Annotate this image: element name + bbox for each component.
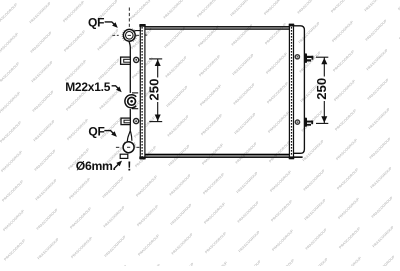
top port outer circle [123, 29, 135, 41]
top port centre dash [128, 34, 131, 37]
label 6mm leader [114, 164, 118, 168]
label QF top leader [105, 22, 116, 25]
top port horizontal centreline dashes [112, 34, 118, 36]
tab 2 outer [121, 118, 130, 125]
left side-plate serration (dashed) [141, 27, 143, 157]
right dimension arrow up [321, 58, 327, 65]
right dimension line lower [323, 101, 325, 123]
right dimension extension tick top [316, 56, 328, 58]
bottom port neck right [130, 131, 132, 141]
left bar top cap [139, 24, 145, 27]
middle port C ring [125, 95, 136, 108]
core top line 1 [145, 26, 290, 27]
left dimension arrow down [155, 115, 161, 122]
core bottom line 2 [141, 156, 303, 158]
right side-plate serration (dashed) [291, 27, 293, 156]
pin 2 bottom arm [307, 124, 311, 126]
left bar bottom cap [139, 157, 145, 160]
svg-text:250: 250 [147, 79, 162, 101]
left fastener 2 [134, 119, 139, 124]
top port inner circle [126, 32, 134, 40]
left tank edge lower [129, 109, 131, 133]
pin 2 top arm [307, 121, 313, 123]
right side-plate bar [289, 24, 293, 159]
right tank outline [294, 26, 305, 154]
label M22x1.5 leader [112, 86, 119, 89]
pin 2 right drop [311, 121, 313, 125]
pin 2 base [305, 118, 307, 127]
top port knurl ring [122, 31, 124, 41]
left tank edge upper [129, 41, 130, 93]
label QF bottom leader [104, 131, 113, 134]
middle port ring [128, 97, 136, 105]
right bar top cap [289, 24, 294, 26]
left dimension arrow up [155, 59, 161, 66]
tank-to-bar top connection [134, 30, 141, 33]
bottom port neck left [127, 131, 130, 141]
tab 2 slot [124, 120, 130, 123]
svg-text:Ø6mm.: Ø6mm. [76, 159, 116, 173]
right dimension line upper [323, 57, 325, 76]
core top line 2 [145, 28, 290, 29]
left dimension extension tick bottom [149, 121, 162, 123]
left side-plate bar [140, 25, 145, 159]
right dimension arrow down [321, 116, 327, 123]
pin 1 base [305, 53, 307, 63]
tab 1 outer [121, 57, 131, 64]
pin 1 bottom arm [307, 59, 311, 61]
right fastener 1 [295, 55, 299, 59]
core bottom line 1 [141, 154, 290, 156]
pin 1 top arm [307, 56, 313, 58]
left fastener 1 [134, 57, 139, 62]
left dimension line lower [157, 102, 159, 122]
svg-text:!: ! [127, 160, 131, 174]
left dimension line upper [157, 59, 159, 78]
right fastener 2 [295, 120, 299, 124]
right dimension extension tick bottom [316, 122, 328, 124]
middle port centre dot [130, 100, 133, 103]
pin 1 right drop [312, 56, 314, 60]
bottom port knurl arc [123, 142, 125, 150]
svg-text:QF: QF [88, 16, 104, 30]
left dimension extension tick top [149, 58, 162, 60]
middle port flange ticks [132, 92, 138, 94]
svg-text:QF: QF [88, 125, 104, 139]
top port vertical centreline (dashed) [128, 8, 130, 30]
bottom port horizontal centreline dashes [116, 146, 119, 148]
mounting foot [120, 154, 128, 158]
bottom port centre dash [127, 146, 130, 149]
tab 1 slot [124, 59, 131, 62]
svg-text:M22x1.5: M22x1.5 [65, 80, 111, 94]
right bar bottom cap [289, 156, 294, 159]
bottom port outer circle [123, 142, 134, 153]
svg-text:250: 250 [314, 78, 329, 100]
